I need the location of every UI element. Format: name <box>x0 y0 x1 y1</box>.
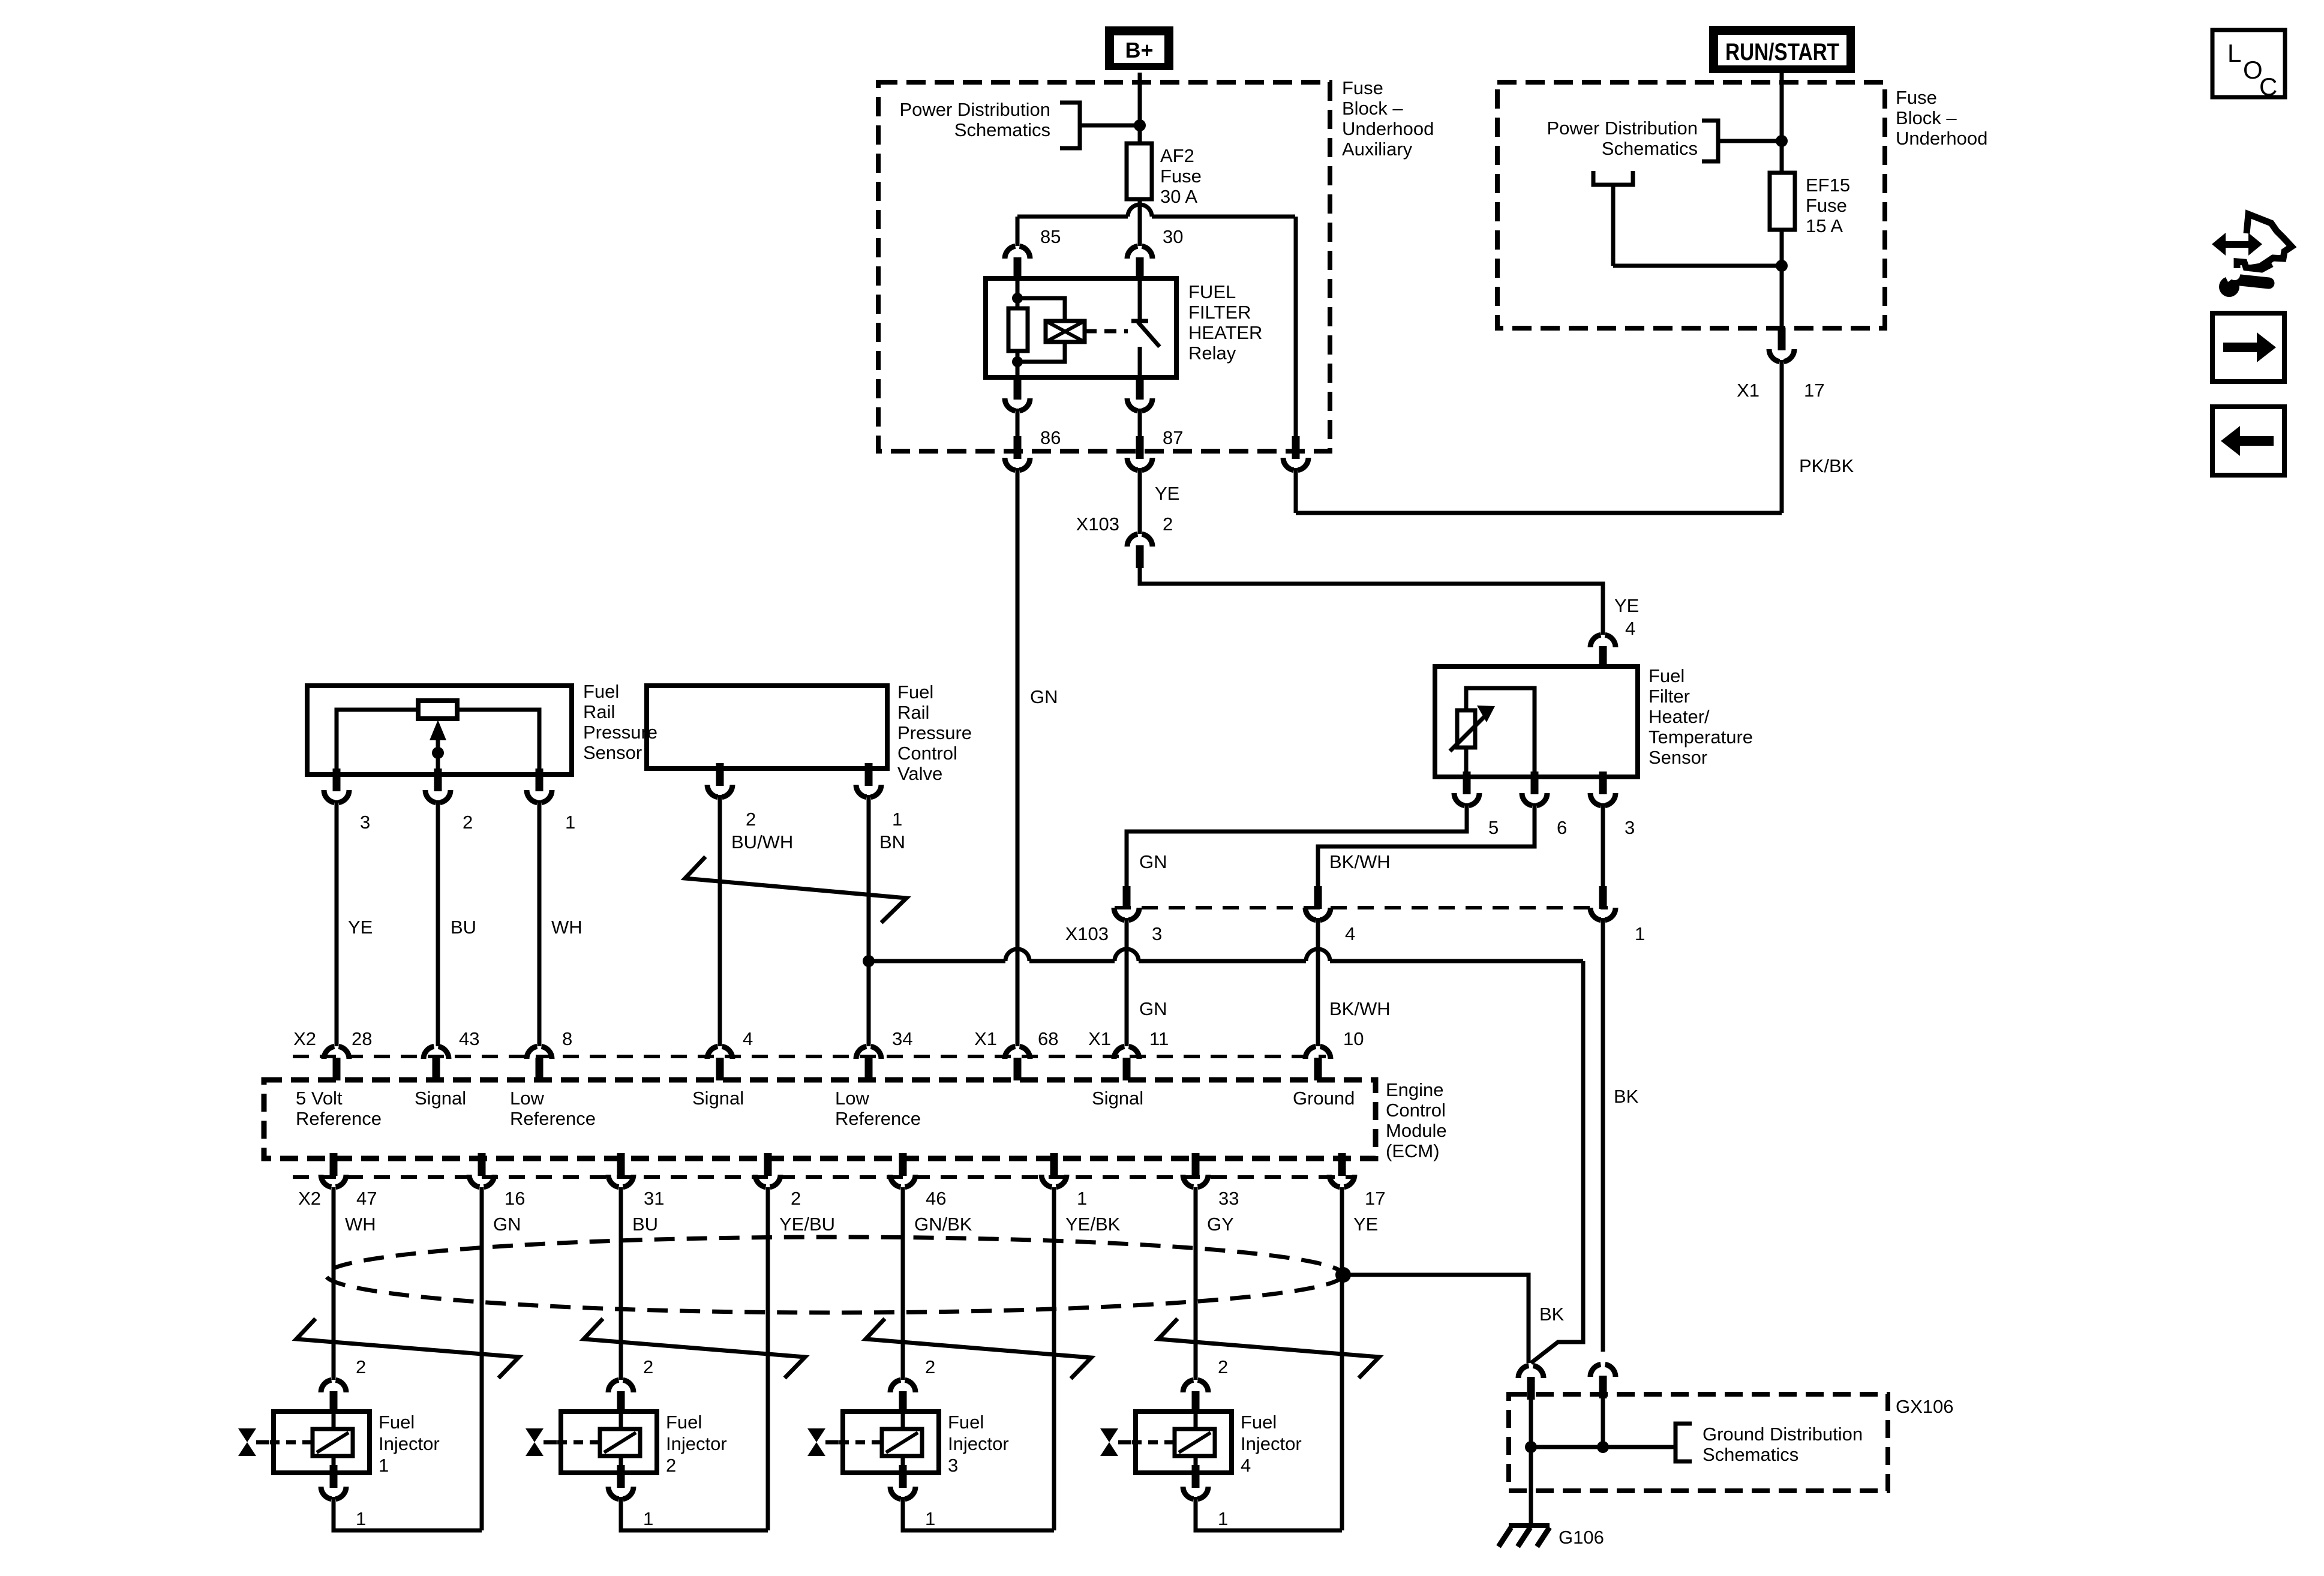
svg-text:31: 31 <box>644 1188 664 1209</box>
svg-text:FUEL: FUEL <box>1188 281 1236 302</box>
svg-text:BK: BK <box>1539 1304 1565 1325</box>
svg-text:15 A: 15 A <box>1806 215 1843 236</box>
svg-text:X1: X1 <box>1737 380 1759 401</box>
svg-text:YE: YE <box>1353 1214 1378 1235</box>
svg-text:85: 85 <box>1040 226 1061 247</box>
svg-text:BU/WH: BU/WH <box>731 831 793 852</box>
svg-text:PK/BK: PK/BK <box>1799 455 1854 476</box>
svg-text:Fuse: Fuse <box>1160 166 1202 187</box>
svg-text:Reference: Reference <box>835 1108 921 1129</box>
svg-text:BU: BU <box>451 917 476 938</box>
svg-text:GN/BK: GN/BK <box>914 1214 972 1235</box>
svg-text:AF2: AF2 <box>1160 145 1194 166</box>
svg-text:2: 2 <box>791 1188 801 1209</box>
svg-text:17: 17 <box>1804 380 1824 401</box>
svg-text:47: 47 <box>356 1188 377 1209</box>
svg-text:87: 87 <box>1163 427 1183 448</box>
svg-text:L: L <box>2227 39 2241 67</box>
svg-text:Control: Control <box>897 743 957 764</box>
svg-text:Ground Distribution: Ground Distribution <box>1703 1424 1863 1445</box>
svg-text:Rail: Rail <box>897 702 929 723</box>
svg-text:Injector: Injector <box>948 1433 1009 1454</box>
svg-text:FILTER: FILTER <box>1188 302 1251 323</box>
svg-text:Pressure: Pressure <box>897 722 972 743</box>
svg-text:Valve: Valve <box>897 763 942 784</box>
svg-text:10: 10 <box>1343 1028 1364 1049</box>
svg-text:Schematics: Schematics <box>1602 138 1698 159</box>
svg-text:EF15: EF15 <box>1806 175 1850 196</box>
svg-text:1: 1 <box>892 809 902 830</box>
svg-text:1: 1 <box>1218 1508 1228 1529</box>
svg-text:Rail: Rail <box>583 701 615 722</box>
svg-text:6: 6 <box>1557 817 1567 838</box>
svg-text:WH: WH <box>345 1214 376 1235</box>
svg-text:8: 8 <box>562 1028 572 1049</box>
svg-text:2: 2 <box>463 812 473 833</box>
svg-text:1: 1 <box>1077 1188 1087 1209</box>
svg-text:1: 1 <box>379 1455 389 1476</box>
svg-text:X103: X103 <box>1076 514 1119 535</box>
svg-text:Ground: Ground <box>1293 1088 1355 1109</box>
svg-text:Injector: Injector <box>1241 1433 1302 1454</box>
svg-text:1: 1 <box>1635 923 1645 944</box>
svg-text:Fuel: Fuel <box>1241 1412 1277 1433</box>
svg-text:28: 28 <box>352 1028 372 1049</box>
svg-text:GY: GY <box>1207 1214 1234 1235</box>
svg-text:RUN/START: RUN/START <box>1725 39 1839 65</box>
svg-text:16: 16 <box>505 1188 525 1209</box>
svg-text:Fuel: Fuel <box>583 681 619 702</box>
svg-text:Sensor: Sensor <box>583 742 642 763</box>
svg-text:X1: X1 <box>1088 1028 1111 1049</box>
svg-text:2: 2 <box>1163 514 1173 535</box>
svg-text:Low: Low <box>510 1088 544 1109</box>
svg-text:5 Volt: 5 Volt <box>296 1088 343 1109</box>
svg-text:Signal: Signal <box>692 1088 744 1109</box>
svg-text:YE: YE <box>1614 595 1639 616</box>
svg-text:4: 4 <box>1241 1455 1251 1476</box>
svg-text:Engine: Engine <box>1386 1079 1444 1100</box>
svg-text:X2: X2 <box>293 1028 316 1049</box>
svg-text:B+: B+ <box>1125 38 1153 62</box>
svg-text:BK: BK <box>1614 1086 1639 1107</box>
svg-text:2: 2 <box>746 809 756 830</box>
svg-text:46: 46 <box>926 1188 946 1209</box>
svg-text:Auxiliary: Auxiliary <box>1342 139 1413 160</box>
svg-text:Fuel: Fuel <box>666 1412 702 1433</box>
svg-text:2: 2 <box>1218 1356 1228 1377</box>
svg-text:Injector: Injector <box>379 1433 440 1454</box>
svg-text:4: 4 <box>1345 923 1355 944</box>
svg-text:Module: Module <box>1386 1120 1447 1141</box>
svg-text:1: 1 <box>643 1508 653 1529</box>
svg-text:Signal: Signal <box>1092 1088 1143 1109</box>
svg-text:X2: X2 <box>298 1188 321 1209</box>
svg-text:Fuel: Fuel <box>379 1412 415 1433</box>
svg-text:Sensor: Sensor <box>1649 747 1707 768</box>
svg-text:Fuse: Fuse <box>1342 77 1383 98</box>
svg-text:Relay: Relay <box>1188 343 1236 364</box>
svg-text:Schematics: Schematics <box>954 119 1050 140</box>
svg-text:Block –: Block – <box>1342 98 1403 119</box>
svg-text:Filter: Filter <box>1649 686 1690 707</box>
svg-text:1: 1 <box>356 1508 366 1529</box>
svg-text:11: 11 <box>1149 1028 1169 1049</box>
svg-text:3: 3 <box>1152 923 1162 944</box>
svg-text:Fuse: Fuse <box>1896 87 1937 108</box>
svg-text:5: 5 <box>1488 817 1499 838</box>
svg-text:Fuel: Fuel <box>897 682 933 703</box>
svg-text:YE/BK: YE/BK <box>1065 1214 1121 1235</box>
svg-text:3: 3 <box>360 812 370 833</box>
svg-text:Reference: Reference <box>296 1108 382 1129</box>
svg-text:Fuse: Fuse <box>1806 195 1847 216</box>
svg-text:1: 1 <box>565 812 575 833</box>
svg-text:YE/BU: YE/BU <box>779 1214 835 1235</box>
svg-text:BK/WH: BK/WH <box>1329 998 1391 1019</box>
svg-text:Control: Control <box>1386 1100 1446 1121</box>
svg-text:34: 34 <box>892 1028 912 1049</box>
svg-text:Heater/: Heater/ <box>1649 706 1710 727</box>
svg-text:BU: BU <box>632 1214 658 1235</box>
svg-text:4: 4 <box>1625 618 1635 639</box>
svg-text:X1: X1 <box>974 1028 997 1049</box>
svg-text:GN: GN <box>493 1214 521 1235</box>
svg-text:Injector: Injector <box>666 1433 727 1454</box>
svg-text:GN: GN <box>1139 998 1167 1019</box>
svg-text:YE: YE <box>1155 483 1179 504</box>
svg-text:2: 2 <box>666 1455 676 1476</box>
svg-text:30 A: 30 A <box>1160 186 1197 207</box>
svg-text:2: 2 <box>356 1356 366 1377</box>
svg-text:G106: G106 <box>1559 1527 1604 1548</box>
svg-text:4: 4 <box>743 1028 753 1049</box>
svg-text:17: 17 <box>1365 1188 1385 1209</box>
svg-text:33: 33 <box>1218 1188 1239 1209</box>
svg-text:Block –: Block – <box>1896 107 1957 128</box>
svg-text:YE: YE <box>348 917 373 938</box>
svg-text:BN: BN <box>879 831 905 852</box>
svg-text:1: 1 <box>925 1508 935 1529</box>
svg-text:Reference: Reference <box>510 1108 596 1129</box>
svg-text:GN: GN <box>1030 686 1058 707</box>
svg-text:Fuel: Fuel <box>1649 665 1685 686</box>
svg-text:43: 43 <box>459 1028 479 1049</box>
svg-text:BK/WH: BK/WH <box>1329 851 1391 872</box>
svg-text:Temperature: Temperature <box>1649 727 1753 748</box>
svg-text:Signal: Signal <box>415 1088 466 1109</box>
svg-text:Power Distribution: Power Distribution <box>1547 118 1698 139</box>
svg-text:2: 2 <box>925 1356 935 1377</box>
svg-text:30: 30 <box>1163 226 1183 247</box>
svg-text:Underhood: Underhood <box>1342 118 1434 139</box>
svg-text:WH: WH <box>551 917 582 938</box>
svg-text:Schematics: Schematics <box>1703 1444 1798 1465</box>
svg-text:Fuel: Fuel <box>948 1412 984 1433</box>
svg-text:GN: GN <box>1139 851 1167 872</box>
svg-text:X103: X103 <box>1065 923 1109 944</box>
svg-text:(ECM): (ECM) <box>1386 1140 1440 1161</box>
svg-text:HEATER: HEATER <box>1188 322 1262 343</box>
svg-text:86: 86 <box>1040 427 1061 448</box>
svg-text:68: 68 <box>1038 1028 1058 1049</box>
svg-text:2: 2 <box>643 1356 653 1377</box>
svg-text:3: 3 <box>948 1455 958 1476</box>
svg-text:3: 3 <box>1625 817 1635 838</box>
svg-text:GX106: GX106 <box>1896 1396 1954 1417</box>
svg-text:Low: Low <box>835 1088 869 1109</box>
svg-text:Underhood: Underhood <box>1896 128 1987 149</box>
svg-text:C: C <box>2259 73 2277 101</box>
svg-text:Power Distribution: Power Distribution <box>899 99 1050 120</box>
